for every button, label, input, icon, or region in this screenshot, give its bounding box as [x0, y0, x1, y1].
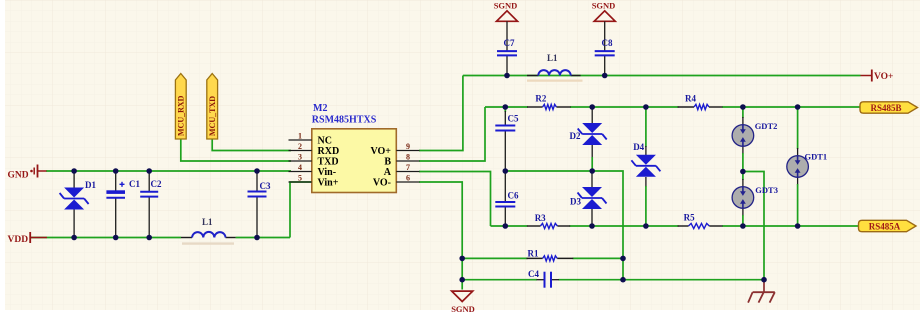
inductor L1 (VDD filter) — [181, 217, 236, 244]
node earth junction — [761, 277, 767, 283]
node R1-left junction — [459, 256, 465, 262]
resistor R1 — [527, 249, 574, 262]
svg-text:1: 1 — [298, 132, 302, 141]
resistor R4 — [678, 94, 723, 110]
wire C4 rail right — [559, 279, 765, 281]
svg-text:SGND: SGND — [592, 1, 616, 11]
svg-text:R1: R1 — [528, 249, 539, 259]
node A-GDT3 junction — [740, 223, 746, 229]
svg-text:MCU_TXD: MCU_TXD — [208, 96, 217, 136]
node B-D2 junction — [589, 104, 595, 110]
pin 3 TXD — [289, 153, 339, 168]
svg-text:Vin-: Vin- — [318, 167, 337, 178]
svg-text:D3: D3 — [570, 197, 581, 207]
diode D3 TVS — [570, 171, 607, 226]
node B-C5 junction — [503, 104, 509, 110]
capacitor C8 — [595, 21, 615, 75]
capacitor C7 — [497, 21, 517, 75]
wire A rail seg3 — [722, 225, 859, 227]
svg-text:D2: D2 — [570, 131, 581, 141]
node mid-D2D3 junction — [589, 168, 595, 174]
svg-text:R5: R5 — [684, 213, 695, 223]
svg-text:VO-: VO- — [373, 178, 391, 189]
resistor R5 — [678, 213, 723, 229]
svg-text:MCU_RXD: MCU_RXD — [177, 95, 186, 136]
svg-text:Vin+: Vin+ — [318, 178, 339, 189]
svg-text:C6: C6 — [508, 191, 519, 201]
svg-text:8: 8 — [406, 153, 410, 162]
svg-text:C3: C3 — [260, 181, 271, 191]
node VDD-C1 junction — [113, 235, 119, 241]
node B-GDT1 junction — [795, 104, 801, 110]
power port SGND (top left) — [494, 1, 518, 22]
pin 1 NC — [289, 132, 332, 147]
svg-text:SGND: SGND — [494, 1, 518, 11]
capacitor C6 — [495, 171, 519, 226]
port MCU_TXD — [207, 74, 218, 140]
wire MCU_RXD to TXD pin — [181, 139, 291, 161]
svg-text:NC: NC — [318, 136, 332, 147]
svg-text:C2: C2 — [151, 179, 162, 189]
pin 8 B — [384, 153, 419, 168]
svg-text:R2: R2 — [535, 94, 546, 104]
wire pin7 to A rail — [419, 172, 491, 227]
wire B rail seg3 — [722, 106, 861, 108]
svg-text:C1: C1 — [129, 179, 140, 189]
svg-text:VO+: VO+ — [874, 72, 893, 82]
svg-text:RS485A: RS485A — [869, 222, 901, 232]
diode D4 TVS — [631, 107, 660, 226]
wire B rail seg2 — [570, 106, 679, 108]
diode D1 TVS — [60, 171, 97, 238]
op-amp U1 : transceiver module M2 RSM485HTXS body — [312, 103, 397, 193]
node A-C6 junction — [503, 223, 509, 229]
node R1-right junction — [620, 256, 626, 262]
svg-text:D1: D1 — [85, 180, 96, 190]
svg-text:A: A — [384, 167, 392, 178]
wire A rail seg1 — [491, 225, 528, 227]
wire VO+ top rail — [463, 75, 861, 77]
node GND-C1 junction — [113, 168, 119, 174]
wire pin8 to B rail — [419, 107, 485, 161]
node VDD-C2 junction — [146, 235, 152, 241]
node mid-GDT23 junction — [740, 169, 746, 175]
wire pin9 to top rail — [419, 76, 463, 151]
svg-text:RSM485HTXS: RSM485HTXS — [312, 115, 377, 126]
svg-text:C8: C8 — [602, 38, 613, 48]
power port VDD — [8, 232, 48, 245]
svg-text:5: 5 — [298, 174, 302, 183]
pin 2 RXD — [289, 142, 340, 157]
wire VDD rail left — [31, 237, 181, 239]
pin 5 Vin+ — [289, 174, 339, 189]
diode D2 TVS — [570, 107, 607, 171]
GDT3 gas discharge tube — [732, 172, 778, 227]
node A-GDT1 junction — [795, 223, 801, 229]
svg-text:L1: L1 — [202, 217, 213, 227]
svg-text:TXD: TXD — [318, 157, 339, 168]
svg-text:2: 2 — [298, 142, 302, 151]
resistor R2 — [527, 94, 571, 110]
wire A rail seg2 — [570, 225, 679, 227]
svg-text:7: 7 — [406, 163, 410, 172]
port MCU_RXD — [175, 74, 186, 140]
wire VDD rail right — [236, 237, 290, 239]
pin 9 VO+ — [371, 142, 420, 157]
wire GND rail — [46, 170, 291, 172]
node GND-C2 junction — [146, 168, 152, 174]
svg-text:GDT1: GDT1 — [805, 152, 828, 162]
svg-text:RXD: RXD — [318, 146, 340, 157]
earth ground — [748, 280, 775, 303]
node mid-C5C6 junction — [503, 168, 509, 174]
wire VDD to Vin+ — [290, 182, 312, 238]
GDT2 gas discharge tube — [732, 107, 777, 172]
svg-text:3: 3 — [298, 153, 302, 162]
node C4-left junction — [459, 277, 465, 283]
wire MCU_TXD to RXD pin — [212, 139, 291, 151]
resistor R3 — [527, 213, 570, 229]
svg-text:RS485B: RS485B — [870, 103, 901, 113]
capacitor C3 — [248, 171, 271, 238]
pin 6 VO- — [373, 174, 420, 189]
svg-text:R3: R3 — [535, 213, 546, 223]
svg-text:M2: M2 — [313, 103, 327, 114]
wire mid node rail — [505, 171, 623, 280]
port RS485B — [860, 102, 918, 113]
svg-text:C5: C5 — [508, 114, 519, 124]
svg-text:C7: C7 — [504, 38, 515, 48]
wire C4 rail left — [462, 279, 537, 281]
capacitor C4 — [528, 269, 559, 288]
svg-text:D4: D4 — [633, 142, 644, 152]
svg-text:4: 4 — [298, 163, 302, 172]
svg-text:B: B — [384, 157, 391, 168]
node VO+-C7 junction — [504, 73, 510, 79]
inductor L1 (VO+ filter) — [527, 53, 583, 81]
svg-text:R4: R4 — [685, 94, 696, 104]
power port SGND (bottom) — [451, 291, 475, 314]
pin 4 Vin- — [289, 163, 337, 178]
svg-text:VO+: VO+ — [371, 146, 392, 157]
capacitor C5 — [495, 107, 519, 171]
capacitor C1 (polarized) — [106, 171, 140, 238]
wire B rail seg1 — [485, 106, 528, 108]
svg-text:6: 6 — [406, 174, 410, 183]
node GND-D1 junction — [71, 168, 77, 174]
wire R1 rail left — [462, 257, 527, 259]
svg-text:C4: C4 — [528, 269, 539, 279]
svg-text:L1: L1 — [547, 53, 558, 63]
svg-text:GND: GND — [8, 171, 29, 181]
svg-text:GDT2: GDT2 — [755, 121, 778, 131]
wire R1 rail right — [573, 257, 624, 259]
GDT1 gas discharge tube — [787, 107, 827, 226]
node B-D4 junction — [643, 104, 649, 110]
node A-D4 junction — [643, 223, 649, 229]
node B-GDT2 junction — [740, 104, 746, 110]
power port SGND (top right) — [592, 1, 616, 22]
node VDD-C3 junction — [254, 235, 260, 241]
node C4-right junction — [620, 277, 626, 283]
node A-D3 junction — [589, 223, 595, 229]
port RS485A — [859, 220, 917, 231]
svg-text:9: 9 — [406, 142, 410, 151]
power port VO+ — [861, 70, 894, 83]
svg-text:GDT3: GDT3 — [755, 185, 778, 195]
power port GND — [8, 165, 47, 181]
svg-text:SGND: SGND — [451, 304, 475, 314]
node GND-C3 junction — [254, 168, 260, 174]
node VO+-C8 junction — [602, 73, 608, 79]
node VDD-D1 junction — [71, 235, 77, 241]
svg-text:VDD: VDD — [8, 235, 29, 245]
wire GDT mid to earth — [743, 172, 764, 280]
pin 7 A — [384, 163, 420, 178]
capacitor C2 — [140, 171, 162, 238]
wire pin6 to SGND — [419, 182, 462, 290]
